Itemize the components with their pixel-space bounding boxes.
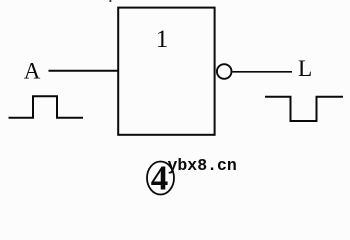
svg-text:A: A	[24, 59, 41, 84]
wire: input A to gate	[49, 70, 119, 72]
inversion bubble	[217, 64, 232, 79]
svg-text:L: L	[298, 56, 312, 82]
gate U1 body (inverter box)	[118, 8, 214, 135]
waveform at A (positive pulse)	[9, 96, 84, 117]
figure number circle	[147, 162, 174, 195]
svg-text:4: 4	[151, 159, 169, 198]
waveform at L (negative pulse)	[265, 97, 343, 121]
svg-text:ybx8.cn: ybx8.cn	[168, 156, 237, 175]
wire: bubble to output L	[233, 71, 293, 73]
svg-text:1: 1	[156, 26, 169, 53]
stray mark at top edge	[110, 0, 112, 2]
